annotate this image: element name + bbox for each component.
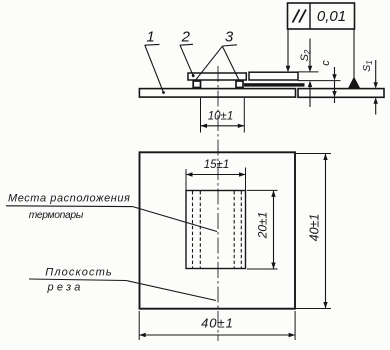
svg-text:20±1: 20±1 [256,212,270,240]
svg-text:mермоnары: mермоnары [29,210,84,221]
svg-text:40±1: 40±1 [201,316,234,331]
dimension 10±1 extension lines [200,98,202,133]
hidden line thermocouple 2 right [240,191,242,268]
svg-text:Месmа расnоложения: Месmа расnоложения [8,193,130,205]
dimension S1 [361,60,374,71]
svg-text:15±1: 15±1 [204,159,230,171]
thermocouple square 3b [236,81,243,88]
base strip right part (under datum) [298,89,384,98]
extension line of bar top (S2 reference) [298,71,319,73]
svg-text:Плоскосmь: Плоскосmь [45,267,112,279]
parallelism tolerance frame [288,3,355,29]
svg-text:2: 2 [181,29,191,46]
leader of label 1 [145,45,164,92]
dimension 40±1 right [296,153,331,155]
thermocouple square 3a [193,81,200,88]
extension line of bar bottom (c reference) [298,80,341,82]
datum support triangle (filled) [348,77,360,89]
dimension 15±1 [185,169,187,190]
leader of label 3 to thermocouple 1 [195,46,222,81]
hidden line thermocouple 1 right [199,191,201,268]
blackened specimen strip [244,83,305,86]
frame leader left (arrow to measured surface) [287,29,289,67]
svg-text:10±1: 10±1 [208,111,234,123]
top right bar (side view) [249,72,298,80]
base plate 1 (side view, left part) [139,89,295,98]
svg-text:0,01: 0,01 [317,8,346,25]
dimension S2 [299,49,312,61]
leader of label 2 [180,45,193,75]
parallelism symbol // [293,10,300,23]
svg-text:c: c [320,60,332,66]
specimen square (front view) [140,152,296,308]
svg-text:3: 3 [225,29,234,46]
svg-text:реза: реза [47,282,84,294]
frame leader right (to datum triangle) [353,29,355,78]
underline + leader to cut plane [29,279,126,281]
leader of label 3 to thermocouple 2 [222,46,239,81]
hidden line thermocouple 1 left [192,191,194,268]
dimension 40±1 bottom [138,311,140,340]
dimension c [320,60,332,66]
dimension 20±1 [247,189,278,191]
clamp plate 2 (front view) [186,191,246,269]
svg-text:40±1: 40±1 [308,214,322,242]
hidden line thermocouple 2 left [233,191,235,268]
clamp plate 2 (side view) [188,73,246,80]
dimension line 10±1 [201,125,245,127]
center line (axis) through both views [217,66,219,341]
svg-text:1: 1 [146,29,154,46]
underline + leader to inner rect [6,205,133,208]
